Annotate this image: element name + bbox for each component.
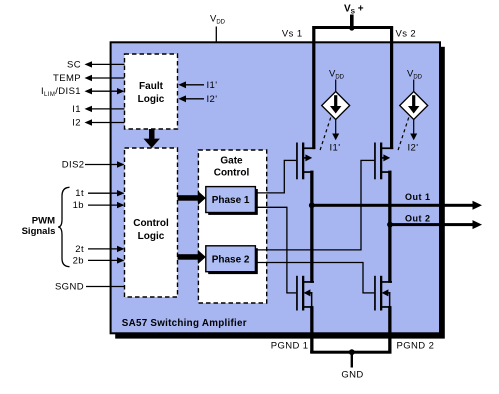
svg-text:SA57 Switching Amplifier: SA57 Switching Amplifier bbox=[122, 318, 247, 329]
svg-text:1t: 1t bbox=[75, 188, 84, 199]
PWM Signals label bbox=[22, 216, 56, 237]
arrow control to phase2 bbox=[178, 250, 206, 264]
phase 2 driver block bbox=[206, 246, 258, 274]
svg-text:Phase 2: Phase 2 bbox=[212, 254, 250, 265]
arrow fault to control bbox=[144, 129, 160, 148]
wire phase1 top gate bbox=[255, 160, 296, 193]
fault logic block U1 bbox=[125, 54, 178, 129]
SA57 amplifier box drop shadow bbox=[115, 47, 445, 339]
svg-text:Phase 1: Phase 1 bbox=[212, 195, 250, 206]
wire phase1 bottom gate bbox=[255, 207, 296, 293]
svg-text:PGND 2: PGND 2 bbox=[397, 341, 435, 352]
wire pgnd1 vertical bbox=[310, 306, 313, 353]
phase 1 driver block bbox=[206, 187, 258, 215]
pin SGND bbox=[55, 282, 125, 293]
wire Vs1 drop bbox=[312, 26, 315, 149]
control logic block U2 bbox=[125, 148, 178, 297]
pin I1 bbox=[72, 104, 124, 115]
SA57 amplifier box bbox=[111, 42, 440, 333]
svg-text:Control: Control bbox=[133, 218, 169, 229]
current source CS2 bbox=[397, 69, 427, 154]
pin 1b bbox=[73, 200, 125, 211]
svg-text:Out 2: Out 2 bbox=[405, 213, 431, 223]
pin TEMP bbox=[53, 73, 125, 84]
wire out1 node vertical bbox=[310, 171, 313, 283]
svg-text:SC: SC bbox=[67, 59, 81, 70]
pin 2t bbox=[75, 244, 124, 255]
svg-text:2b: 2b bbox=[73, 255, 84, 266]
arrow control to phase1 bbox=[178, 191, 206, 205]
transistor Q3 low-side 1 bbox=[296, 276, 314, 311]
transistor Q2 high-side 2 bbox=[374, 143, 393, 180]
svg-text:PGND 1: PGND 1 bbox=[271, 341, 309, 352]
pin I1' into fault bbox=[178, 80, 217, 91]
svg-text:Logic: Logic bbox=[138, 94, 165, 105]
svg-text:Fault: Fault bbox=[139, 81, 164, 92]
pin 1t bbox=[75, 188, 124, 199]
output Out 2 bbox=[387, 213, 482, 229]
svg-text:I2: I2 bbox=[72, 118, 81, 129]
svg-text:Vs 2: Vs 2 bbox=[396, 29, 417, 40]
pin VDD top bbox=[210, 14, 226, 43]
svg-text:TEMP: TEMP bbox=[53, 73, 81, 84]
svg-text:Out 1: Out 1 bbox=[405, 192, 431, 202]
wire Vs2 drop bbox=[390, 26, 393, 149]
pin I2' into fault bbox=[178, 94, 217, 105]
current source CS1 bbox=[319, 69, 349, 154]
wire pgnd2 vertical bbox=[388, 306, 391, 353]
svg-text:SGND: SGND bbox=[55, 282, 84, 293]
wire out2 node vertical bbox=[388, 171, 391, 283]
pin 2b bbox=[73, 255, 125, 266]
transistor Q1 high-side 1 bbox=[296, 143, 315, 180]
svg-text:Signals: Signals bbox=[22, 226, 56, 237]
pin SC bbox=[67, 59, 125, 70]
transistor Q4 low-side 2 bbox=[374, 276, 392, 311]
PWM brace bbox=[58, 187, 70, 266]
svg-text:I1': I1' bbox=[330, 143, 341, 154]
svg-text:I2': I2' bbox=[408, 143, 419, 154]
svg-text:2t: 2t bbox=[75, 244, 84, 255]
svg-text:Control: Control bbox=[214, 168, 250, 179]
svg-text:I1: I1 bbox=[72, 104, 81, 115]
ground rail bbox=[310, 349, 391, 367]
svg-text:1b: 1b bbox=[73, 200, 84, 211]
wire phase2 bottom gate bbox=[255, 262, 374, 293]
svg-text:DIS2: DIS2 bbox=[62, 160, 85, 171]
output Out 1 bbox=[309, 192, 482, 210]
svg-text:I1': I1' bbox=[207, 80, 218, 91]
svg-text:Gate: Gate bbox=[220, 155, 243, 166]
pin DIS2 bbox=[62, 160, 125, 171]
svg-text:GND: GND bbox=[341, 370, 363, 381]
pin ILIM/DIS1 bbox=[41, 86, 125, 98]
Vs+ supply rail bbox=[312, 4, 393, 31]
wire phase2 top gate bbox=[255, 160, 374, 250]
gate control block U3 bbox=[198, 150, 266, 303]
svg-text:Logic: Logic bbox=[138, 231, 165, 242]
pin I2 bbox=[72, 118, 124, 129]
svg-text:Vs 1: Vs 1 bbox=[282, 29, 303, 40]
svg-text:I2': I2' bbox=[207, 94, 218, 105]
